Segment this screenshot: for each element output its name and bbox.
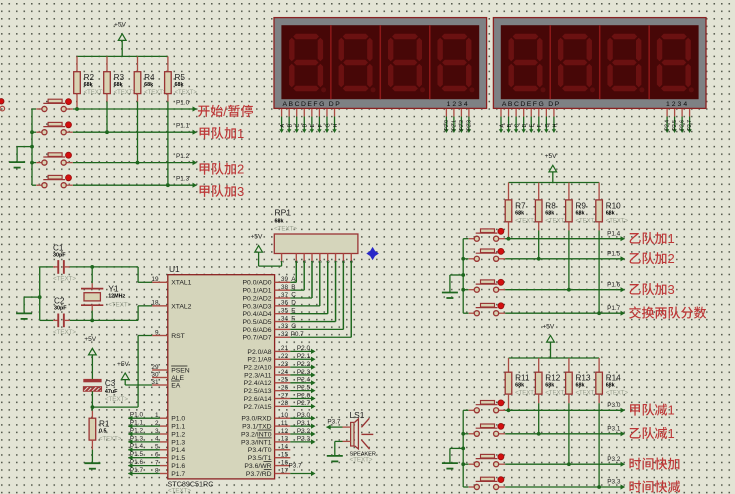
mcu pin 26 P2.5 [275, 390, 291, 392]
wire [538, 231, 540, 259]
svg-text:68k: 68k [576, 210, 585, 216]
wire P3.7 to speaker [327, 426, 343, 428]
button (team B +3) [469, 289, 475, 291]
mcu pin 10 P3.0 [275, 417, 291, 419]
wire [463, 463, 468, 465]
svg-text:+5V: +5V [114, 22, 127, 29]
wire P3.0 row [505, 409, 624, 411]
wire P1.4 row [505, 238, 624, 240]
wire P3.1 row [505, 433, 624, 435]
wire to EA [124, 379, 126, 385]
mcu pin 31 EA [152, 384, 168, 386]
wire [335, 261, 337, 322]
svg-text:32: 32 [281, 331, 289, 338]
svg-text:27: 27 [281, 392, 289, 399]
svg-text:P0.7: P0.7 [291, 331, 305, 338]
svg-text:P1.4: P1.4 [130, 443, 144, 450]
svg-text:G: G [291, 323, 296, 330]
mcu pin 21 P2.0 [275, 350, 291, 352]
mcu pin 12 P3.2 [275, 433, 291, 435]
svg-text:P3.3: P3.3 [607, 479, 621, 486]
svg-text:68k: 68k [576, 383, 585, 389]
wire P3.2 row [505, 463, 624, 465]
svg-text:XTAL1: XTAL1 [171, 280, 191, 287]
button (team A -1) [469, 409, 475, 411]
svg-text:4: 4 [310, 260, 316, 263]
svg-text:P3.3/INT1: P3.3/INT1 [241, 439, 272, 446]
wire [128, 441, 160, 443]
svg-text:30: 30 [151, 371, 159, 378]
svg-text:17: 17 [281, 467, 289, 474]
svg-text:<TEXT>: <TEXT> [175, 90, 198, 96]
svg-text:P2.2: P2.2 [459, 120, 465, 131]
wire [32, 108, 36, 110]
resistor pack RP1 body [274, 234, 358, 254]
wire [463, 433, 468, 435]
wire [128, 473, 160, 475]
svg-text:P2.6/A14: P2.6/A14 [244, 396, 272, 403]
resistor R3 68k [106, 56, 108, 71]
respack pin 3 [303, 254, 305, 261]
svg-text:33: 33 [281, 323, 289, 330]
svg-text:ABCDEFG: ABCDEFG [283, 101, 326, 108]
mcu pin 7 P1.6 [160, 465, 168, 467]
mcu pin 14 P3.4 [275, 449, 291, 451]
svg-text:P2.3: P2.3 [297, 369, 311, 376]
svg-text:P3.7: P3.7 [327, 418, 341, 425]
display pin B [508, 109, 510, 117]
svg-text:P1.4: P1.4 [607, 230, 621, 237]
wire [290, 336, 351, 338]
mcu pin 9 RST [152, 335, 168, 337]
button (swap scores) [469, 312, 475, 314]
svg-text:<TEXT>: <TEXT> [99, 437, 122, 443]
svg-text:+5V: +5V [250, 233, 263, 240]
crystal Y1 12MHz [91, 267, 93, 283]
svg-text:R2: R2 [84, 73, 95, 82]
svg-text:E: E [530, 124, 536, 128]
mcu pin 25 P2.4 [275, 382, 291, 384]
svg-text:P2.0: P2.0 [297, 345, 311, 352]
svg-text:68k: 68k [175, 82, 184, 88]
partial button at left edge [0, 99, 4, 104]
svg-text:30pF: 30pF [54, 305, 67, 311]
svg-text:10: 10 [281, 412, 289, 419]
wire [463, 486, 468, 488]
mcu pin 4 P1.3 [160, 441, 168, 443]
svg-text:EA: EA [171, 382, 181, 389]
svg-text:P0.0/AD0: P0.0/AD0 [243, 280, 272, 287]
svg-text:P0.6/AD6: P0.6/AD6 [243, 327, 272, 334]
display pin H [334, 109, 336, 117]
wire [128, 465, 160, 467]
display pin digit-4 (P2.3) [468, 109, 470, 117]
display pin B [288, 109, 290, 117]
svg-text:<TEXT>: <TEXT> [606, 218, 629, 224]
resistor R4 68k [137, 56, 139, 71]
svg-text:25: 25 [281, 377, 289, 384]
svg-text:+5V: +5V [545, 153, 558, 160]
resistor R1 0.5 [91, 407, 93, 411]
svg-text:P1.3: P1.3 [171, 439, 185, 446]
svg-text:C3: C3 [105, 379, 116, 388]
resistor R14 68k [598, 358, 600, 372]
mcu pin 23 P2.2 [275, 366, 291, 368]
button (start/pause) [36, 108, 42, 110]
resistor R10 68k [598, 183, 600, 200]
display pin digit-3 (P2.6) [681, 109, 683, 117]
svg-text:P2.6: P2.6 [680, 120, 686, 131]
label team B +3 [630, 284, 641, 295]
svg-text:P3.0/RXD: P3.0/RXD [241, 416, 271, 423]
svg-text:P1.2: P1.2 [130, 427, 144, 434]
svg-text:+5V: +5V [117, 361, 130, 368]
svg-text:68k: 68k [114, 82, 123, 88]
svg-text:P3.1: P3.1 [297, 420, 311, 427]
mcu pin 22 P2.1 [275, 358, 291, 360]
svg-text:P3.0: P3.0 [297, 412, 311, 419]
svg-text:C2: C2 [54, 297, 65, 306]
wire P1.3 row [73, 184, 197, 186]
wire [552, 172, 554, 183]
wire (caps common) [39, 267, 41, 321]
svg-text:XTAL2: XTAL2 [171, 303, 191, 310]
wire to XTAL2 [137, 306, 139, 321]
svg-text:RP1: RP1 [275, 208, 292, 218]
svg-text:68k: 68k [606, 210, 615, 216]
svg-text:P3.7: P3.7 [289, 462, 303, 469]
wire P1.0 row [73, 108, 197, 110]
svg-text:68k: 68k [515, 383, 524, 389]
respack pin 7 [335, 254, 337, 261]
svg-text:<TEXT>: <TEXT> [576, 218, 599, 224]
ground (left keypad) [17, 146, 32, 148]
mcu pin 1 P1.0 [160, 417, 168, 419]
wire [568, 231, 570, 290]
svg-text:14: 14 [281, 444, 289, 451]
wire P1.1 row [73, 131, 197, 133]
svg-text:<TEXT>: <TEXT> [515, 391, 538, 397]
svg-text:H: H [552, 124, 558, 128]
svg-text:<TEXT>: <TEXT> [84, 90, 107, 96]
button (team A +1) [36, 131, 42, 133]
mcu pin 2 P1.1 [160, 425, 168, 427]
display pin A [281, 109, 283, 117]
svg-text:68k: 68k [84, 82, 93, 88]
svg-text:P2.5: P2.5 [297, 384, 311, 391]
svg-text:<TEXT>: <TEXT> [545, 391, 568, 397]
wire [91, 450, 93, 464]
svg-text:31: 31 [151, 379, 159, 386]
resistor R7 68k [508, 183, 510, 200]
svg-text:F: F [291, 315, 295, 322]
display pin digit-2 (P2.5) [674, 109, 676, 117]
wire [598, 231, 600, 314]
mcu U1 STC89C51RC body [168, 275, 275, 479]
junction dots keypad C [507, 408, 511, 412]
svg-text:P2.1: P2.1 [297, 353, 311, 360]
wire [91, 391, 93, 407]
wire to XTAL1 [137, 267, 139, 282]
display pin digit-4 (P2.7) [689, 109, 691, 117]
svg-text:P1.5: P1.5 [607, 250, 621, 257]
svg-text:D: D [522, 124, 528, 128]
wire [290, 358, 311, 360]
display pin C [296, 109, 298, 117]
mcu pin 38 P0.1 [275, 289, 291, 291]
mcu pin 39 P0.0 [275, 281, 291, 283]
label start/pause [198, 106, 210, 117]
svg-text:R10: R10 [606, 201, 621, 210]
wire [290, 321, 335, 323]
resistor R9 68k [568, 183, 570, 200]
svg-text:P1.1: P1.1 [130, 420, 144, 427]
svg-text:P1.6: P1.6 [130, 459, 144, 466]
wire [290, 366, 311, 368]
wire [290, 473, 311, 475]
svg-text:<TEXT>: <TEXT> [144, 90, 167, 96]
svg-text:68k: 68k [606, 383, 615, 389]
svg-text:30pF: 30pF [53, 253, 66, 259]
wire [290, 313, 327, 315]
display pin C [515, 109, 517, 117]
svg-text:3: 3 [237, 184, 244, 199]
resistor R11 68k [508, 358, 510, 372]
display pin E [530, 109, 532, 117]
svg-text:P0.4/AD4: P0.4/AD4 [243, 311, 272, 318]
button (time fast+) [469, 463, 475, 465]
svg-text:29: 29 [151, 364, 159, 371]
wire [290, 398, 311, 400]
ground (keypad B) [450, 274, 463, 276]
svg-text:P0.1/AD1: P0.1/AD1 [243, 288, 272, 295]
wire [463, 409, 468, 411]
mcu pin 3 P1.2 [160, 433, 168, 435]
svg-text:68k: 68k [275, 218, 284, 224]
svg-text:P1.0: P1.0 [130, 412, 144, 419]
mcu pin 15 P3.5 [275, 457, 291, 459]
svg-text:2: 2 [668, 251, 675, 266]
svg-text:P0.7/AD7: P0.7/AD7 [243, 335, 272, 342]
wire [342, 261, 344, 330]
svg-text:B: B [507, 124, 513, 128]
svg-text:P2.7: P2.7 [297, 400, 311, 407]
wire [290, 425, 311, 427]
label team B -1 [630, 428, 641, 439]
svg-text:23: 23 [281, 361, 289, 368]
ground (reset) [84, 462, 100, 464]
label team B +2 [630, 253, 641, 264]
wire [463, 258, 468, 260]
mcu pin 37 P0.2 [275, 297, 291, 299]
svg-text:+5V: +5V [542, 323, 555, 330]
svg-text:P3.3: P3.3 [297, 436, 311, 443]
svg-text:P3.7/RD: P3.7/RD [246, 471, 272, 478]
label team A -1 [630, 404, 640, 415]
svg-text:1234: 1234 [666, 101, 689, 108]
digit 1 [289, 34, 323, 91]
mcu pin 11 P3.1 [275, 425, 291, 427]
capacitor C1 30pF [40, 266, 54, 268]
wire [167, 102, 169, 186]
respack pin 2 [295, 254, 297, 261]
wire [290, 350, 311, 352]
7-segment display frame [493, 18, 706, 109]
resistor R5 68k [167, 56, 169, 71]
label team B +1 [630, 233, 641, 244]
wire P1.7 row [505, 312, 624, 314]
svg-text:D: D [291, 300, 296, 307]
digit 3 [388, 34, 422, 91]
respack pin 5 [319, 254, 321, 261]
svg-text:P2.7: P2.7 [687, 120, 693, 131]
resistor R2 68k [76, 56, 78, 71]
svg-text:R14: R14 [606, 374, 621, 383]
respack pin 8 [342, 254, 344, 261]
wire [32, 162, 36, 164]
svg-text:9: 9 [349, 260, 355, 263]
mcu pin 34 P0.5 [275, 321, 291, 323]
7-segment display frame [274, 18, 487, 109]
svg-text:C: C [515, 124, 521, 128]
wire [463, 289, 468, 291]
wire to RST [92, 406, 138, 408]
svg-text:P2.1: P2.1 [451, 120, 457, 131]
mcu pin 32 P0.7 [275, 336, 291, 338]
svg-text:DP: DP [329, 101, 341, 108]
wire [598, 403, 600, 487]
svg-text:68k: 68k [545, 210, 554, 216]
mcu pin 18 XTAL2 [152, 305, 168, 307]
svg-text:11: 11 [281, 420, 288, 427]
svg-text:8: 8 [341, 260, 347, 263]
wire [290, 390, 311, 392]
svg-text:13: 13 [281, 436, 289, 443]
wire (keypad C common) [462, 410, 464, 487]
svg-text:<TEXT>: <TEXT> [606, 391, 629, 397]
svg-text:<TEXT>: <TEXT> [114, 90, 137, 96]
wire [290, 374, 311, 376]
button (team A +2) [36, 162, 42, 164]
wire [463, 238, 468, 240]
svg-text:5: 5 [318, 260, 324, 263]
display pin digit-1 (P2.0) [445, 109, 447, 117]
svg-text:E: E [310, 124, 316, 128]
svg-text:P3.2: P3.2 [607, 456, 621, 463]
svg-text:RST: RST [171, 333, 185, 340]
svg-text:P1.0: P1.0 [176, 99, 190, 106]
wire (left keypad common) [31, 109, 33, 185]
svg-text:2: 2 [237, 162, 244, 177]
wire [290, 289, 304, 291]
svg-text:15: 15 [281, 452, 289, 459]
svg-text:P1.6: P1.6 [171, 463, 185, 470]
svg-text:<TEXT>: <TEXT> [53, 329, 76, 336]
mcu pin 8 P1.7 [160, 473, 168, 475]
svg-text:U1: U1 [169, 264, 180, 274]
svg-text:P2.7/A15: P2.7/A15 [244, 404, 272, 411]
svg-text:DP: DP [548, 101, 560, 108]
capacitor C3 47uF electrolytic [83, 379, 101, 382]
wire [290, 297, 312, 299]
svg-text:P1.5: P1.5 [130, 451, 144, 458]
svg-text:36: 36 [281, 300, 289, 307]
wire [290, 382, 311, 384]
respack pin 1 [281, 254, 283, 261]
svg-text:P2.6: P2.6 [297, 392, 311, 399]
svg-text:/: / [223, 104, 227, 119]
display pin F [538, 109, 540, 117]
digit 3 [607, 34, 641, 91]
svg-text:P2.4: P2.4 [297, 377, 311, 384]
svg-text:P1.2: P1.2 [171, 431, 185, 438]
svg-text:<TEXT>: <TEXT> [515, 218, 538, 224]
wire [77, 55, 168, 57]
svg-text:E: E [291, 307, 295, 314]
svg-text:12: 12 [281, 428, 289, 435]
svg-text:P0.2/AD2: P0.2/AD2 [243, 295, 272, 302]
display pin H [553, 109, 555, 117]
svg-text:P1.4: P1.4 [171, 447, 185, 454]
wire speaker to ground [343, 440, 351, 442]
svg-text:<TEXT>: <TEXT> [576, 391, 599, 397]
svg-text:P3.2/INT0: P3.2/INT0 [241, 431, 272, 438]
mcu pin 33 P0.6 [275, 328, 291, 330]
label team A +1 [200, 128, 210, 139]
mcu pin 24 P2.3 [275, 374, 291, 376]
svg-text:P2.4/A12: P2.4/A12 [244, 380, 272, 387]
svg-text:G: G [325, 123, 331, 127]
mcu pin 27 P2.6 [275, 398, 291, 400]
mcu pin 36 P0.3 [275, 305, 291, 307]
svg-text:<TEXT>: <TEXT> [108, 301, 131, 308]
display pin G [326, 109, 328, 117]
wire [128, 457, 160, 459]
button (time fast-) [469, 486, 475, 488]
svg-text:35: 35 [281, 308, 289, 315]
wire [32, 184, 36, 186]
svg-text:P3.5/T1: P3.5/T1 [248, 455, 272, 462]
svg-text:R1: R1 [99, 420, 110, 429]
wire [538, 403, 540, 434]
wire [258, 252, 260, 266]
svg-text:<TEXT>: <TEXT> [350, 457, 373, 464]
wire [311, 261, 313, 298]
svg-text:R4: R4 [144, 73, 155, 82]
resistor R13 68k [568, 358, 570, 372]
svg-text:P1.1: P1.1 [171, 424, 185, 431]
svg-text:R13: R13 [576, 374, 591, 383]
wire P3.3 row [505, 486, 624, 488]
respack pin 6 [327, 254, 329, 261]
wire [350, 261, 352, 337]
svg-text:1234: 1234 [447, 101, 470, 108]
display pin digit-1 (P2.4) [666, 109, 668, 117]
svg-text:R3: R3 [114, 73, 125, 82]
svg-text:47uF: 47uF [105, 389, 118, 395]
svg-text:C: C [295, 124, 301, 128]
digit 2 [558, 34, 592, 91]
display pin G [545, 109, 547, 117]
label team A +2 [200, 163, 210, 174]
mcu pin 28 P2.7 [275, 405, 291, 407]
svg-text:0.5: 0.5 [99, 429, 107, 435]
svg-text:P2.5/A13: P2.5/A13 [244, 388, 272, 395]
respack pin 9 [350, 254, 352, 261]
button (team B -1) [469, 433, 475, 435]
wire [290, 328, 343, 330]
svg-text:ABCDEFG: ABCDEFG [502, 101, 545, 108]
